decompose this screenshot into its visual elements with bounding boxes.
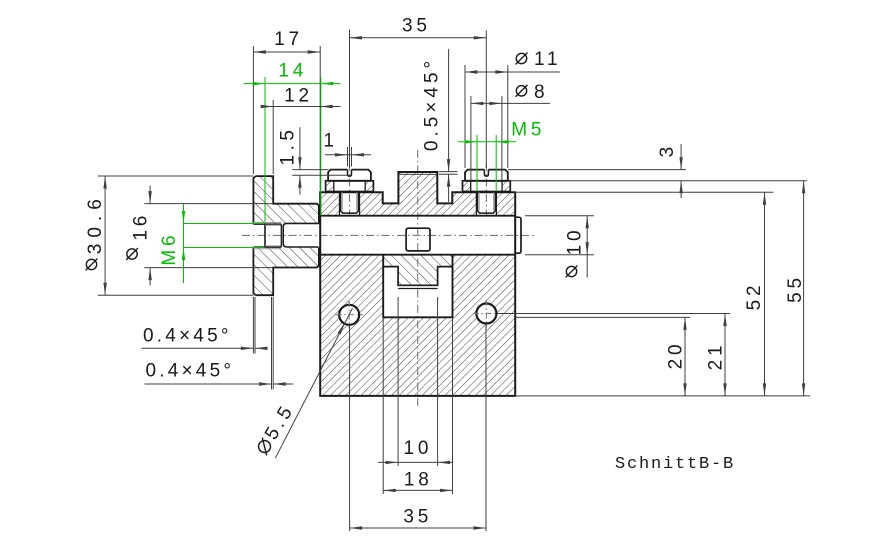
- arrowhead: [802, 181, 805, 194]
- washer hatch fill: [463, 181, 511, 192]
- dia sym 8: [516, 85, 528, 97]
- ext d8 left: [470, 96, 472, 180]
- arrowhead: [489, 102, 502, 105]
- arrowhead: [465, 140, 478, 143]
- dim 18: [383, 489, 452, 491]
- svg-text:20: 20: [666, 341, 687, 370]
- arrowhead: [474, 36, 487, 39]
- svg-text:55: 55: [785, 274, 806, 303]
- svg-text:18: 18: [404, 470, 433, 491]
- svg-text:11: 11: [534, 49, 561, 70]
- arrowhead: [440, 489, 453, 492]
- svg-text:16: 16: [131, 212, 152, 241]
- hole wall left: [339, 192, 341, 215]
- ext 0.4a left: [252, 297, 254, 354]
- hole center mark v: [485, 300, 487, 327]
- washer ID left: [470, 181, 472, 192]
- svg-text:12: 12: [284, 86, 313, 107]
- leader dia5.5: [275, 308, 352, 458]
- svg-text:3: 3: [657, 143, 678, 157]
- arrowhead: [261, 105, 274, 108]
- arrowhead: [298, 157, 301, 170]
- hole wall right: [359, 192, 361, 215]
- arrowhead: [253, 50, 266, 53]
- dim 21: [724, 314, 726, 396]
- hole center mark h: [336, 314, 363, 316]
- arrowhead: [586, 242, 589, 255]
- arrowhead: [586, 216, 589, 229]
- ext M6 bottom: [184, 247, 265, 249]
- arrowhead: [335, 153, 348, 156]
- arrowhead: [679, 181, 682, 194]
- dim d16 upper: [149, 186, 151, 204]
- arrowhead: [241, 347, 254, 350]
- arrowhead: [298, 175, 301, 188]
- tip chamfer top: [265, 224, 267, 226]
- arrowhead: [273, 382, 286, 385]
- ext 35b left: [349, 325, 351, 531]
- arrowhead: [308, 50, 321, 53]
- arrowhead: [182, 211, 185, 224]
- dim 0.4a: [142, 347, 254, 349]
- ext 18 right: [452, 317, 454, 494]
- svg-text:0.5×45°: 0.5×45°: [422, 57, 443, 151]
- arrowhead: [182, 248, 185, 261]
- dim 1: [325, 154, 371, 156]
- ext d11 left: [464, 65, 466, 168]
- arrowhead: [683, 317, 686, 330]
- screw washer: [463, 181, 511, 192]
- screw head: [328, 170, 371, 181]
- arrowhead: [386, 461, 399, 464]
- arrowhead: [679, 157, 682, 170]
- dia sym 11: [516, 53, 528, 65]
- arrowhead: [103, 283, 106, 296]
- hole wall right: [495, 192, 497, 215]
- dim M5: [458, 141, 516, 143]
- dim 17: [253, 51, 320, 53]
- flange lower outline: [256, 247, 319, 295]
- shank thread root r: [356, 192, 358, 210]
- arrowhead: [259, 382, 272, 385]
- block hatch fill: [320, 172, 515, 396]
- ext 10b right: [437, 297, 439, 466]
- hole dia5.5 left: [339, 305, 359, 325]
- svg-text:35: 35: [402, 16, 431, 37]
- arrowhead: [253, 82, 266, 85]
- arrowhead: [802, 383, 805, 396]
- svg-text:30.6: 30.6: [85, 193, 106, 254]
- arrowhead: [383, 489, 396, 492]
- svg-text:1: 1: [323, 130, 337, 151]
- dia sym 16: [126, 248, 138, 260]
- flange hole / thread crest top: [253, 223, 281, 225]
- ext 18 left: [382, 317, 384, 494]
- arrowhead: [763, 192, 766, 205]
- svg-text:10: 10: [404, 438, 433, 459]
- boss chamfer line 0.5x45: [398, 173, 437, 175]
- shaft thread root top: [265, 224, 281, 226]
- arrowhead: [474, 526, 487, 529]
- right screw centerline: [485, 163, 487, 215]
- T-piece hatch fill: [383, 255, 452, 286]
- hole center mark redraw: [473, 313, 500, 315]
- svg-text:35: 35: [403, 507, 432, 528]
- ext 0.5 bottom: [439, 173, 458, 175]
- screw shank: [341, 192, 359, 213]
- arrowhead: [471, 102, 484, 105]
- arrowhead: [103, 176, 106, 189]
- ext 0.5 top: [439, 171, 458, 173]
- hole dia5.5 right: [476, 304, 496, 324]
- ext M6 top: [184, 223, 265, 225]
- key square on shaft: [406, 228, 430, 251]
- ext 14 right green: [320, 77, 322, 216]
- svg-text:8: 8: [534, 82, 548, 103]
- washer hatch fill: [326, 181, 374, 192]
- cavity outline: [383, 255, 452, 318]
- svg-text:52: 52: [744, 282, 765, 311]
- T-piece plate line: [398, 288, 438, 290]
- dim 52: [764, 192, 766, 396]
- ext 1 left: [347, 147, 349, 167]
- dim d11: [465, 71, 560, 73]
- ext d10 bottom: [525, 254, 594, 256]
- arrowhead: [465, 70, 478, 73]
- arrowhead: [763, 383, 766, 396]
- dia6 smooth section with neck: [283, 223, 318, 247]
- ext 17/12 right: [319, 46, 321, 191]
- ext 17 left: [252, 46, 254, 174]
- dim 20: [684, 317, 686, 396]
- ext M5 left: [476, 135, 478, 191]
- arrowhead: [321, 82, 334, 85]
- svg-text:21: 21: [706, 342, 727, 371]
- main shaft centerline: [242, 234, 536, 236]
- arrowhead: [447, 174, 450, 187]
- ext 20: [515, 316, 690, 318]
- arrowhead: [148, 191, 151, 204]
- head bottom edge: [328, 180, 371, 182]
- leader arrow: [338, 323, 345, 335]
- arrowhead: [148, 268, 151, 281]
- ext d11 right: [507, 65, 509, 168]
- left screw centerline: [349, 163, 351, 215]
- dim 3 upper: [680, 144, 682, 170]
- hole center mark redraw: [336, 314, 363, 316]
- flange chamfer corner 0.4x45: [272, 294, 274, 296]
- ext d10 top: [525, 215, 594, 217]
- flange hatch fill: [253, 176, 319, 295]
- ext 1 right: [351, 147, 353, 167]
- ext 14 left green: [264, 77, 266, 222]
- svg-text:SchnittB-B: SchnittB-B: [615, 455, 735, 474]
- dim d8: [471, 102, 550, 104]
- arrowhead: [438, 461, 451, 464]
- ext 0.4b left: [271, 297, 273, 390]
- ext 1.5 bottom: [292, 174, 347, 176]
- dim 10 bottom: [378, 461, 452, 463]
- T-piece steps: [383, 267, 452, 286]
- hole center mark h: [473, 313, 500, 315]
- dim 35 bottom: [350, 527, 486, 529]
- screw washer: [326, 181, 374, 192]
- dim d16 lower: [149, 268, 151, 286]
- hole wall left: [475, 192, 477, 215]
- screw head: [465, 170, 508, 181]
- dim 55: [803, 181, 805, 396]
- washer ID left: [333, 181, 335, 192]
- washer ID right: [501, 181, 503, 192]
- dia sym 10: [566, 266, 578, 278]
- washer ID right: [364, 181, 366, 192]
- shank thread root l: [341, 192, 343, 210]
- arrowhead: [350, 36, 363, 39]
- arrowhead: [320, 105, 333, 108]
- arrowhead: [683, 383, 686, 396]
- hole center mark redraw v: [485, 300, 487, 327]
- screw shank: [478, 192, 496, 213]
- arrowhead: [723, 383, 726, 396]
- svg-text:M5: M5: [511, 120, 545, 141]
- dim 0.4b: [145, 383, 272, 385]
- ext 35b right: [485, 324, 487, 531]
- shaft bottom edge: [320, 254, 515, 256]
- dim 0.5x45 lower: [448, 174, 450, 202]
- ext 10b left: [397, 297, 399, 466]
- dim 1.5 upper: [299, 127, 301, 169]
- dim 35 top: [350, 37, 487, 39]
- text dia5.5: [253, 400, 299, 458]
- screw slot: [348, 170, 352, 177]
- hole center mark redraw v: [348, 301, 350, 328]
- svg-text:14: 14: [278, 61, 307, 82]
- shank thread root l: [478, 192, 480, 210]
- ext 21: [498, 313, 731, 315]
- ext 3 top: [508, 169, 686, 171]
- tip chamfer bottom: [265, 245, 267, 247]
- dim 0.4b tail: [273, 383, 293, 385]
- shaft M6 tip face: [264, 224, 266, 247]
- svg-text:1.5: 1.5: [278, 126, 299, 166]
- dim 12: [262, 106, 341, 108]
- ext 52 top: [515, 191, 773, 193]
- hub thread root top: [253, 222, 281, 224]
- dim M6 line: [183, 204, 185, 283]
- arrowhead: [496, 140, 509, 143]
- ext M5 right: [495, 135, 497, 191]
- flange upper outline: [256, 176, 319, 224]
- ext 12 left: [272, 100, 274, 174]
- ext d8 right: [501, 96, 503, 180]
- block outline: [320, 172, 515, 396]
- dim 3 lower: [680, 181, 682, 198]
- arrowhead: [495, 70, 508, 73]
- svg-text:17: 17: [274, 29, 303, 50]
- ext 35t left: [349, 29, 351, 168]
- ext 3/55: [510, 180, 807, 182]
- ext 0.4b right: [272, 297, 274, 390]
- dim d10: [586, 216, 588, 278]
- dim 14 green: [243, 83, 340, 85]
- arrowhead: [350, 526, 363, 529]
- ext d16 top: [144, 203, 273, 205]
- shaft right stub: [515, 217, 521, 253]
- ext 1.5 top: [292, 169, 328, 171]
- shank thread root r: [493, 192, 495, 210]
- shaft thread root bottom: [265, 245, 281, 247]
- vertical boss centerline: [417, 150, 419, 407]
- thread runout line: [280, 224, 282, 247]
- ext bottom right: [515, 395, 810, 397]
- dia sym 30.6: [86, 259, 98, 271]
- ext 0.4a right: [254, 297, 256, 354]
- arrowhead: [447, 159, 450, 172]
- dim 0.4a tail: [255, 347, 263, 349]
- ext d30.6 bottom: [98, 294, 254, 296]
- arrowhead: [723, 314, 726, 327]
- dim d30.6: [104, 176, 106, 295]
- ext d16 bottom: [144, 267, 273, 269]
- svg-text:10: 10: [565, 227, 586, 256]
- flange left edge top: [253, 176, 255, 224]
- head bottom edge: [465, 180, 508, 182]
- ext 35t right: [485, 31, 487, 169]
- ext d30.6 top: [98, 175, 254, 177]
- dim 1.5 lower: [299, 175, 301, 194]
- hole center mark v: [348, 301, 350, 328]
- arrowhead: [255, 347, 268, 350]
- shaft top edge: [320, 215, 515, 217]
- flange hole / thread crest bottom: [253, 246, 281, 248]
- screw slot: [484, 170, 488, 177]
- flange left edge bottom: [253, 247, 255, 295]
- dim 0.5x45 line: [448, 49, 450, 172]
- svg-text:M6: M6: [159, 232, 180, 266]
- svg-text:0.4×45°: 0.4×45°: [143, 326, 232, 347]
- dia sym 5.5: [256, 438, 274, 456]
- svg-text:0.4×45°: 0.4×45°: [146, 361, 235, 382]
- hub thread root bottom: [253, 248, 281, 250]
- arrowhead: [352, 153, 365, 156]
